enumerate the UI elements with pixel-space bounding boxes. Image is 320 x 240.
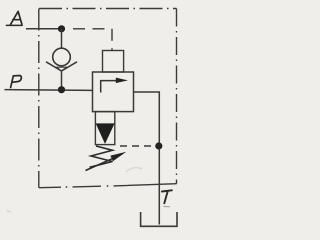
wire: dashed pilot line from A junction to valve top xyxy=(73,29,112,51)
boundary top edge xyxy=(39,8,177,10)
adjustable spring xyxy=(86,146,127,171)
wire: check valve lower lead xyxy=(61,71,63,90)
check valve (ball in seat) xyxy=(46,48,77,71)
faint scan smudge bottom-left xyxy=(7,211,12,213)
wire: port A line xyxy=(26,28,62,30)
port label P xyxy=(11,76,22,88)
boundary left edge xyxy=(38,9,40,188)
port label A xyxy=(6,11,22,25)
node: junction dot on tank line xyxy=(155,142,162,149)
port label T xyxy=(162,190,172,206)
valve lower poppet rectangle xyxy=(95,112,114,145)
flow arrow inside valve body xyxy=(101,78,128,93)
node: junction dot on A line xyxy=(58,25,65,32)
wire: check valve upper lead xyxy=(61,29,63,49)
valve top spring-chamber rectangle xyxy=(103,51,124,73)
boundary bottom edge xyxy=(39,184,177,188)
relief valve main body square xyxy=(93,72,134,112)
node: junction dot on P line xyxy=(58,86,65,93)
faint scan smudge xyxy=(126,168,142,172)
poppet: filled triangle xyxy=(96,123,115,143)
boundary right edge xyxy=(176,9,178,184)
wire: port P line xyxy=(5,89,93,92)
enclosure dash-dot boundary box xyxy=(39,9,177,188)
wire: dashed drain pilot line xyxy=(120,145,155,147)
wire: outlet line to tank xyxy=(134,92,160,225)
tank symbol xyxy=(141,212,177,226)
adjustment arrow xyxy=(86,158,114,170)
